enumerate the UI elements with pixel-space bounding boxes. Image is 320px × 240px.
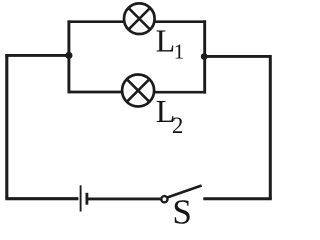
svg-text:L: L: [156, 23, 176, 59]
wire: left vertical side: [5, 54, 8, 199]
wire: bottom middle segment (battery to switch): [88, 197, 161, 200]
wire: left middle horizontal to junction: [5, 54, 69, 57]
switch S pivot circle: [161, 196, 167, 202]
battery long plate (positive): [80, 185, 82, 211]
lamp L1 cross stroke NE-SW: [129, 8, 151, 30]
lamp L2 cross stroke NW-SE: [127, 79, 150, 102]
svg-text:2: 2: [172, 113, 184, 138]
wire: right horizontal from junction: [203, 55, 270, 58]
lamp L1 circle: [124, 3, 155, 34]
svg-text:1: 1: [174, 40, 185, 64]
wire: bottom branch right segment: [154, 91, 206, 94]
wire: top branch left segment: [68, 20, 124, 23]
battery short plate (negative): [86, 193, 89, 205]
lamp L2 cross stroke NE-SW: [127, 79, 150, 102]
wire: bottom left segment (corner to battery): [5, 197, 78, 200]
switch S open-arm lever: [167, 186, 201, 198]
wire: right vertical side: [269, 55, 272, 199]
wire: top branch right segment: [155, 20, 206, 23]
wire: bottom right segment (switch to right corner): [203, 197, 271, 200]
lamp L1 cross stroke NW-SE: [129, 8, 151, 30]
wire: bottom branch left segment: [68, 91, 122, 94]
junction node right: [201, 53, 208, 60]
svg-text:S: S: [172, 193, 191, 228]
junction node left: [65, 52, 72, 59]
wire: parallel-section right vertical: [203, 20, 206, 93]
lamp L2 circle: [122, 75, 154, 107]
wire: parallel-section left vertical: [67, 20, 70, 93]
